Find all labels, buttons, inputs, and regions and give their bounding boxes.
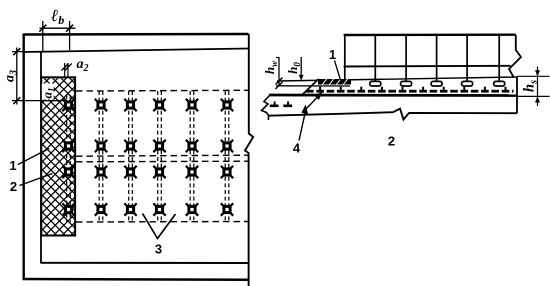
stud row 2 col 3 [124, 140, 136, 152]
section: topping ramp sloped edge [302, 79, 319, 96]
slab edge bottom inner line [41, 262, 249, 264]
section: stud head plate 3 [401, 81, 412, 86]
stud row 3 col 1 [62, 166, 74, 178]
stud row 1 col 3 [124, 99, 136, 111]
section: adjacent panel hidden stud dash 1 [270, 102, 279, 108]
svg-text:ℓb: ℓb [51, 6, 64, 27]
section: stud head plate 4 [431, 81, 442, 86]
dimension l_b tick right [66, 25, 73, 32]
dimension h_s bottom extension line [517, 95, 550, 97]
leader 2 (plan) [20, 174, 53, 186]
leader 1 (section) [335, 61, 341, 81]
stud column 4 dashed axis lines [158, 91, 162, 222]
svg-text:a2: a2 [77, 57, 89, 74]
dimension a3 bottom extension line [12, 100, 66, 102]
slab edge left outer line [23, 34, 25, 281]
dimension h_s arrowheads [535, 70, 540, 76]
dimension h_w line [278, 58, 280, 87]
stud row 1 col 1 [62, 99, 74, 111]
section: stud head plate 6 [494, 81, 505, 86]
section: panel rib post 1 [344, 35, 346, 80]
stud column 3 dashed axis lines [129, 91, 133, 222]
hidden beam dashed line lower [76, 160, 248, 163]
section: panel rib post 5 [466, 35, 468, 82]
stud row 2 col 1 [62, 140, 74, 152]
stud row 1 col 4 [153, 99, 165, 111]
stud row 4 col 5 [186, 203, 198, 215]
item 3 pointer V mark [143, 214, 176, 239]
leader 1 (plan) [18, 149, 49, 165]
svg-text:hs: hs [522, 80, 540, 92]
section: lower slab bottom line with break [269, 109, 518, 120]
stud row 3 col 4 [153, 166, 165, 178]
section: lower slab left break zigzag [262, 96, 270, 121]
section: stud/joint dashed row [306, 87, 514, 93]
section: panel rib post 2 [374, 35, 376, 82]
dimension a3 line [16, 48, 18, 105]
slab edge top inner line [24, 49, 249, 53]
svg-text:2: 2 [388, 134, 395, 149]
section: precast slab top line (left) [276, 85, 350, 87]
dimension a2 slash ticks [62, 64, 69, 71]
dimension h_0 arrowhead [299, 75, 304, 81]
dimension a3 tick bottom [13, 97, 20, 104]
section: stud head plate 2 [370, 81, 381, 86]
hidden beam dashed line upper [76, 155, 248, 156]
stud row 2 col 6 [221, 140, 233, 152]
svg-text:1: 1 [329, 47, 336, 62]
stud row 4 col 4 [153, 203, 165, 215]
svg-text:hw: hw [262, 60, 279, 74]
stud column 1 dashed axis lines [67, 95, 71, 222]
section: panel rib post 3 [405, 35, 407, 82]
svg-text:1: 1 [9, 158, 16, 173]
section: panel top chord line [344, 34, 516, 37]
svg-text:h0: h0 [285, 62, 302, 74]
dimension h_s top extension line [517, 75, 550, 77]
plan right break edge with zigzag [245, 34, 253, 286]
section: embedded plate 1 (hatched bar) [318, 79, 351, 85]
dimension l_b extension lines [42, 21, 44, 51]
stud column 2 dashed axis lines [99, 91, 103, 222]
svg-text:a3: a3 [3, 70, 20, 82]
stud row 2 col 5 [186, 140, 198, 152]
section: slab right edge [516, 77, 518, 113]
stud row 1 col 5 [186, 99, 198, 111]
slab edge bottom outer line [23, 278, 249, 281]
stud row 4 col 6 [221, 203, 233, 215]
dimension l_b line [40, 27, 76, 29]
embedded plate (hatched), item 1 [41, 77, 75, 235]
section: panel rib post 4 [436, 35, 438, 82]
section: adjacent panel hidden stud dash 2 [283, 102, 292, 108]
dimension a3 bottom extension line over box [41, 100, 66, 102]
section: interface thick line [269, 94, 517, 97]
section: panel right break edge [509, 35, 521, 78]
stud row 4 col 3 [124, 203, 136, 215]
svg-text:4: 4 [293, 141, 301, 156]
dimension a2 extension lines [64, 63, 66, 77]
stud row 2 col 4 [153, 140, 165, 152]
dimension a3 tick top [13, 48, 20, 55]
section: panel rib post 6 [498, 35, 500, 82]
svg-text:2: 2 [10, 179, 17, 194]
dimension l_b tick left [39, 25, 46, 32]
svg-text:3: 3 [155, 242, 162, 257]
label a1 white box [42, 84, 54, 100]
stud row 4 col 2 [95, 203, 107, 215]
dimension h_0 line [300, 57, 302, 78]
stud column 6 dashed axis lines [225, 91, 229, 222]
stud row 4 col 1 [62, 203, 74, 215]
section: topping top surface line [277, 77, 517, 81]
stud row 3 col 5 [186, 166, 198, 178]
dimension h_w ticks [276, 78, 283, 85]
section: stud head plate 5 [462, 81, 473, 86]
section: panel bottom chord line [344, 65, 511, 68]
stud field bottom dashed line [76, 221, 248, 224]
stud row 3 col 3 [124, 166, 136, 178]
stud row 3 col 2 [95, 166, 107, 178]
slab edge left inner line [40, 52, 42, 264]
leader 4 (section) [299, 95, 320, 141]
stud field top dashed line [76, 89, 248, 92]
slab edge top outer line [24, 33, 249, 36]
dimension h_s line [537, 67, 539, 107]
stud row 1 col 2 [95, 99, 107, 111]
stud row 2 col 2 [95, 140, 107, 152]
stud row 3 col 6 [221, 166, 233, 178]
stud column 5 dashed axis lines [190, 91, 194, 222]
stud row 1 col 6 [221, 99, 233, 111]
dimension a3 top extension line [12, 51, 24, 53]
